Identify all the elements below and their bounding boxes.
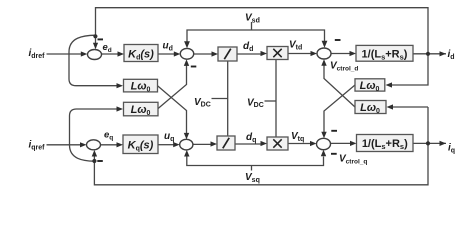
svg-text:Kq(s): Kq(s) (128, 140, 154, 153)
svg-text:Kd(s): Kd(s) (128, 49, 154, 62)
